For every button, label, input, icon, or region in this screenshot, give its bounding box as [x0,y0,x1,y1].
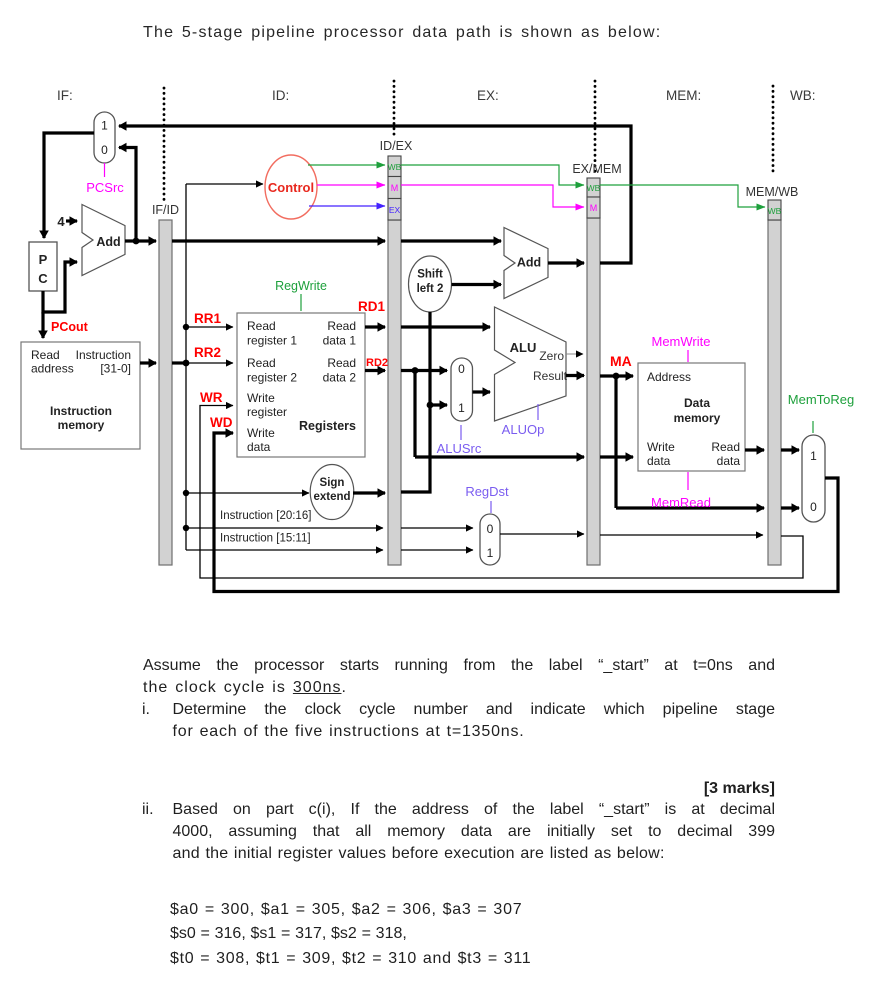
junction RR1 [183,324,189,330]
wire read data 2 to ID/EX [365,369,385,372]
svg-text:ALUOp: ALUOp [502,422,545,437]
svg-text:RR1: RR1 [194,311,221,326]
shift left 2 unit [409,256,452,312]
wire instruction to Control [186,183,263,185]
svg-text:data: data [647,454,671,468]
svg-text:IF:: IF: [57,88,73,103]
wire PCout to instruction memory [41,312,44,338]
svg-text:Result: Result [533,369,568,383]
dotted separator IF/ID [163,88,166,201]
wire read data 1 to ID/EX [365,325,385,328]
svg-text:P: P [39,252,48,267]
svg-text:EX: EX [389,205,401,215]
RegWrite tick [300,294,302,311]
svg-text:MemWrite: MemWrite [652,334,711,349]
junction PC+4 line [133,238,140,245]
wire WB signal ID/EX to EX/MEM (green) [401,165,584,185]
marks [143,778,775,800]
svg-text:left 2: left 2 [417,283,444,295]
junction memory address [613,373,620,380]
svg-text:MEM/WB: MEM/WB [746,185,799,199]
mux RegDst [480,514,500,565]
wire instruction vertical bus [185,184,187,550]
svg-text:Registers: Registers [299,419,356,433]
data memory [638,363,745,471]
svg-text:memory: memory [674,411,721,425]
svg-text:Add: Add [517,256,541,270]
svg-text:RR2: RR2 [194,345,221,360]
svg-text:data 2: data 2 [323,371,357,385]
wire Control WB signal (green) [308,164,385,166]
pipeline register IF/ID [159,220,172,565]
svg-text:WD: WD [210,415,233,430]
ID/EX EX box [388,199,401,221]
svg-text:EX/MEM: EX/MEM [572,162,621,176]
title text [143,24,661,42]
junction read data 2 [412,367,419,374]
adder Add (IF) [82,205,125,276]
svg-text:0: 0 [458,362,465,376]
svg-text:Data: Data [684,396,710,410]
wire sign extend to ALUSrc mux 1 [430,403,447,406]
svg-text:Write: Write [247,391,275,405]
PCSrc control tick [104,163,106,177]
wire RegDst mux output to EX/MEM [500,533,584,535]
svg-text:Control: Control [268,180,314,195]
wire constant 4 to Add [66,219,77,222]
svg-text:C: C [38,271,48,286]
svg-text:Read: Read [247,319,276,333]
svg-text:0: 0 [101,143,108,157]
ALU [495,307,567,421]
wire sign extend value up to shift/mux [401,312,430,492]
adder Add (branch) [504,228,548,299]
svg-text:MemRead: MemRead [651,495,711,510]
svg-text:[31-0]: [31-0] [100,362,131,376]
svg-text:Read: Read [31,348,60,362]
svg-text:Instruction: Instruction [50,404,112,418]
wire Control EX signal (blue) [309,205,385,207]
dotted separator ID/EX [393,81,396,138]
EX/MEM M box [587,197,600,218]
wire M signal ID/EX to EX/MEM (magenta) [401,185,584,207]
ID/EX M box [388,177,401,199]
svg-text:Instruction [15:11]: Instruction [15:11] [220,533,311,545]
item i [142,699,775,743]
wire instruction [15:11] to ID/EX [186,549,383,551]
svg-text:0: 0 [810,500,817,514]
svg-text:RD2: RD2 [366,357,388,369]
wire write register number to registers WR [200,406,803,579]
register PC [29,242,57,291]
wire Control M signal (magenta) [317,184,385,186]
svg-text:M: M [590,203,598,213]
svg-text:WB:: WB: [790,88,816,103]
MemToReg tick [812,421,814,433]
item ii [142,799,775,865]
svg-text:register: register [247,405,287,419]
dotted separator EX/MEM [594,81,597,175]
svg-text:data: data [247,440,271,454]
wire WB signal EX/MEM to MEM/WB (green) [600,185,765,207]
pipeline register EX/MEM [587,218,600,565]
mux PCSrc [94,112,115,163]
wire PC+4 IF/ID to ID/EX [172,239,385,242]
svg-text:register 1: register 1 [247,334,297,348]
svg-text:extend: extend [313,491,350,503]
svg-text:RegWrite: RegWrite [275,279,327,293]
wire read register 1 [186,326,233,328]
svg-text:Write: Write [247,426,275,440]
RegDst control tick [490,501,492,513]
wire branch Add result to EX/MEM [548,261,584,264]
svg-text:IF/ID: IF/ID [152,203,179,217]
wire store data to data memory write data [600,455,633,458]
svg-text:WR: WR [200,390,223,405]
wire read data 2 down to store path [413,371,416,458]
junction sign extend input [183,490,189,496]
svg-text:Read: Read [327,319,356,333]
wire sign extend output to ID/EX [353,491,385,494]
svg-text:Address: Address [647,370,691,384]
svg-text:Read: Read [327,356,356,370]
wire ALU result to MEM/WB [616,506,764,509]
svg-text:1: 1 [487,546,494,560]
svg-text:Write: Write [647,440,675,454]
svg-text:EX:: EX: [477,88,499,103]
svg-text:WB: WB [388,162,402,172]
junction instr 20:16 [183,525,189,531]
svg-text:Zero: Zero [539,349,564,363]
svg-text:register 2: register 2 [247,371,297,385]
wire read data 1 to ALU [401,325,490,328]
svg-text:Shift: Shift [417,269,443,281]
MEM/WB WB box [768,200,781,220]
wire ALU result down [614,376,617,508]
wire write-back data to registers WD [214,433,838,592]
mux MemToReg [802,435,825,522]
wire branch target EX/MEM to PCSrc mux input 1 [119,126,631,263]
wire read data 2 to ALUSrc mux 0 [401,369,447,372]
svg-text:RegDst: RegDst [465,484,509,499]
instruction memory [21,342,140,449]
svg-text:M: M [391,183,399,193]
svg-text:0: 0 [487,522,494,536]
svg-text:ID/EX: ID/EX [380,139,413,153]
pipeline register ID/EX [388,220,401,565]
register values [170,898,810,972]
wire instruction [20:16] to ID/EX [186,527,383,529]
svg-text:MA: MA [610,353,632,369]
svg-text:WB: WB [768,206,782,216]
wire write register number to MEM/WB [600,534,763,536]
junction instruction bus [183,360,190,367]
svg-text:ALUSrc: ALUSrc [437,441,482,456]
wire instr [15:11] to RegDst mux 1 [401,549,473,551]
wire PC output to Add input [43,262,77,312]
junction sign extend value [427,402,434,409]
svg-text:Read: Read [711,440,740,454]
wire instr [20:16] to RegDst mux 0 [401,527,473,529]
svg-text:data: data [717,454,741,468]
pipeline register MEM/WB [768,220,781,565]
MemRead tick [687,472,689,490]
svg-text:Instruction: Instruction [76,348,131,362]
registers box [237,313,365,457]
wire shift left 2 to branch Add [452,283,502,286]
wire instruction to IF/ID [140,361,156,364]
svg-text:Sign: Sign [320,477,345,489]
sign extend unit [310,465,354,520]
svg-text:ID:: ID: [272,88,289,103]
paragraph: assume [143,655,775,699]
svg-text:ALU: ALU [510,340,537,355]
svg-text:data 1: data 1 [323,334,357,348]
dotted separator MEM/WB [772,86,775,173]
wire store data to EX/MEM [415,455,584,458]
mux ALUSrc [451,358,473,421]
wire Add output to IF/ID [125,239,156,242]
wire ALUSrc mux output to ALU [473,390,491,393]
wire memory read data to MEM/WB [745,448,764,451]
wire read data to MemToReg mux 1 [781,448,799,451]
svg-text:address: address [31,362,74,376]
svg-text:MemToReg: MemToReg [788,392,854,407]
svg-text:1: 1 [458,401,465,415]
svg-text:MEM:: MEM: [666,88,701,103]
wire instruction to sign extend [186,492,309,494]
svg-text:Read: Read [247,356,276,370]
svg-text:Instruction [20:16]: Instruction [20:16] [220,510,311,522]
svg-text:PCSrc: PCSrc [86,180,124,195]
svg-text:RD1: RD1 [358,299,385,314]
wire PC+4 to PCSrc mux input 0 [119,148,136,242]
ALUOp control tick [537,404,539,420]
svg-text:1: 1 [101,119,108,133]
ID/EX WB box [388,156,401,177]
wire PCSrc mux output to PC [44,133,94,238]
svg-text:memory: memory [58,418,105,432]
control unit [265,155,317,219]
svg-text:4: 4 [57,214,65,229]
ALUSrc control tick [460,425,462,440]
svg-text:Add: Add [96,235,120,249]
svg-text:1: 1 [810,449,817,463]
wire PC+4 ID/EX to branch Add [401,239,501,242]
wire ALU zero to EX/MEM [566,353,583,355]
EX/MEM WB box [587,178,600,197]
svg-text:WB: WB [587,183,601,193]
wire ALU result to MemToReg mux 0 [781,506,799,509]
wire instruction IF/ID to junction [172,361,186,364]
wire ALU result to data memory address [600,374,633,377]
MemWrite tick [687,350,689,362]
wire ALU result to EX/MEM [566,374,584,377]
svg-text:PCout: PCout [51,320,89,334]
wire to read register 2 [186,362,233,364]
